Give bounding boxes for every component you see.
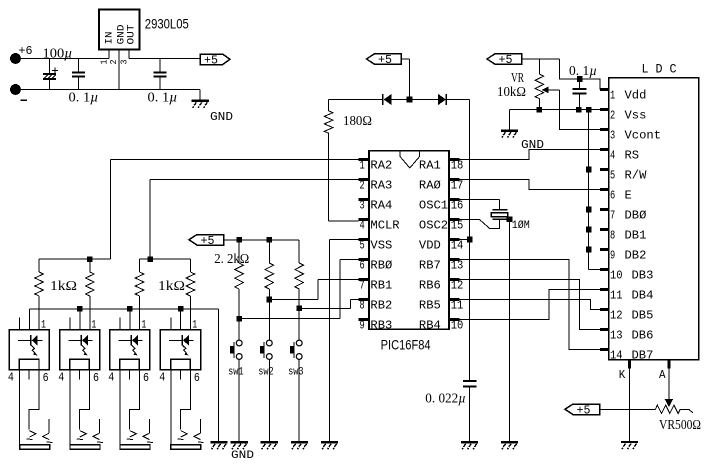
wire U2 pin1 lead [108,49,110,58]
pin 11 RB5 stub [449,298,460,301]
svg-text:MCLR: MCLR [370,219,399,233]
svg-text:RB4: RB4 [419,319,441,333]
svg-text:6: 6 [43,371,49,385]
ground VSS [321,441,338,443]
svg-text:IN: IN [104,32,116,45]
wire PH3 sensor lead [149,419,151,433]
arrow PH3 sensor chevron [143,433,150,439]
wire contrast gnd drop [508,110,510,131]
wire sw1 to ground [238,359,240,442]
wire bus to ground [217,309,219,442]
wire U2 pin3 lead [128,49,130,58]
label U2 pin IN [104,32,116,45]
svg-text:PIC16F84: PIC16F84 [381,337,431,353]
pin 6 RB0 stub [358,258,369,261]
svg-text:15: 15 [451,219,464,233]
pin 7 RB1 stub [358,278,369,281]
wire top rail left [16,58,110,60]
svg-text:VSS: VSS [370,239,392,253]
lcd module body [609,78,699,360]
arrow PH1 emission [31,345,35,353]
node bus DB0 [586,207,592,213]
photo-interrupter PH2 body [60,330,100,370]
ground C5 [461,441,478,443]
wire PH2 pin6 hook [80,370,90,430]
wire +5 to Vdd [559,59,600,90]
pin 1 RA2 stub [358,158,369,161]
svg-text:DB1: DB1 [625,228,647,242]
arrow PH3 hook chevron [130,431,137,437]
notch PH1 bottom window [19,359,39,369]
notch PH4 bottom window [171,359,191,369]
pin 2 RA3 stub [358,178,369,181]
svg-text:14: 14 [610,348,623,362]
svg-text:E: E [625,188,632,202]
svg-text:0. 1µ: 0. 1µ [69,90,99,105]
svg-text:4: 4 [360,219,365,233]
node sw1 RB0 junction [236,316,242,322]
svg-text:4: 4 [108,371,114,385]
svg-text:DB7: DB7 [632,348,654,362]
wire PH3 top stub pin1 [129,309,131,330]
node C4 bottom [576,107,582,113]
svg-text:13: 13 [451,259,464,273]
lcd pin 1 Vdd [600,88,609,91]
lcd pin 14 DB7 [600,348,609,351]
wire PH3 bottom stub mid [128,370,130,380]
capacitor C3 0.1u [159,59,161,73]
pin 12 RB6 stub [449,278,460,281]
diode D1 [382,94,384,105]
pin number U2 1 [99,60,109,65]
wire PH1 bottom stub mid [28,370,30,380]
wire RA0 to E [449,180,600,190]
svg-text:11: 11 [610,288,623,302]
led PH4 internal [169,339,182,341]
slit PH4 bottom bar [171,445,201,450]
pin 4 MCLR stub [358,218,369,221]
arrow PH4 sensor chevron [194,433,201,439]
svg-text:6: 6 [194,371,200,385]
svg-text:4: 4 [159,371,165,385]
wire PH4 bottom stub mid [179,370,181,380]
svg-text:1: 1 [192,320,197,332]
resistor R8 2.2k [298,240,300,263]
node +6 input terminal [10,53,21,64]
wire RA1 to RS [449,150,600,160]
node rail B junction [147,256,153,262]
notch PH3 bottom window [120,359,140,369]
svg-text:K: K [619,368,626,382]
wire OSC1 [449,199,500,201]
pin number U2 2 [109,60,119,65]
wire K to ground [628,369,630,442]
node C4 top junction [577,76,583,82]
svg-text:RB6: RB6 [419,279,441,293]
svg-text:5: 5 [360,239,365,253]
wire +5 to pot top [522,58,560,60]
wire PH4 top stub left [170,317,172,329]
svg-text:RB7: RB7 [419,259,441,273]
svg-text:DB4: DB4 [632,288,654,302]
pin 17 RA0 stub [449,178,460,181]
svg-text:1: 1 [141,320,146,332]
svg-text:+6: +6 [19,44,33,58]
svg-text:1: 1 [610,88,615,102]
resistor R1 180ohm [328,100,330,111]
wire RB6 to DB6 [449,280,600,330]
wire sw2 to ground [268,359,270,442]
svg-text:7: 7 [610,208,615,222]
svg-text:+5: +5 [378,54,392,67]
svg-text:OUT: OUT [126,25,138,45]
wire VDD to capacitor [469,240,471,382]
node rail A junction [87,256,93,262]
svg-text:RAØ: RAØ [419,179,441,193]
pin 14 VDD stub [449,238,460,241]
svg-text:DBØ: DBØ [625,208,647,222]
wire PH1 sensor lead [48,419,50,433]
arrow PH2 sensor chevron [93,433,100,439]
switch sw3 [296,340,302,346]
led PH3 internal [118,339,131,341]
svg-text:9: 9 [360,319,365,333]
lcd pin A stub [667,360,670,369]
svg-text:DB5: DB5 [632,308,654,322]
capacitor C5 0.022u [463,380,477,382]
svg-text:3: 3 [119,60,129,65]
svg-text:1: 1 [91,320,96,332]
svg-text:0. 1µ: 0. 1µ [569,63,597,78]
pin 5 VSS stub [358,238,369,241]
node bus PH2 [77,306,83,312]
wire PH4 pin6 hook [180,370,190,430]
svg-text:VR500Ω: VR500Ω [659,417,701,432]
ground resonator [501,441,518,443]
notch PH2 bottom window [70,359,90,369]
arrow PH2 emission [82,345,86,353]
svg-text:11: 11 [451,299,464,313]
node bus DB1 [586,227,592,233]
potentiometer VR500 body [655,405,680,413]
svg-text:+5: +5 [499,54,513,67]
ic U1 PIC16F84 body [369,151,449,330]
svg-text:2: 2 [109,60,119,65]
wire PH3 pin4 down [119,370,121,446]
wire power ground drop [199,90,201,101]
svg-text:RB5: RB5 [419,299,441,313]
ground sw3 [291,441,308,443]
resistor R4 1k [139,259,141,272]
wire RB0 to sw1 [239,318,340,320]
wire diode row right [446,99,469,101]
lcd pin 13 DB6 [600,328,609,331]
svg-text:17: 17 [451,179,464,193]
wire pullup rail [224,239,300,241]
node bus R/W [586,167,592,173]
wire RB1 to sw2 [269,299,318,301]
pin 18 RA1 stub [449,158,460,161]
ground bus rail [210,441,227,443]
capacitor C2 0.1u [78,59,80,73]
lcd pin 2 Vss [600,108,609,111]
net label +5 contrast [487,54,522,65]
photo-interrupter PH4 body [160,330,200,370]
wire MCLR [329,220,359,222]
pin 9 RB3 stub [358,318,369,321]
svg-text:14: 14 [451,239,464,253]
svg-text:DB2: DB2 [625,248,647,262]
ground power [192,100,209,102]
wire PH1 top stub pin1 [28,309,30,330]
wire resonator to ground [509,219,511,442]
node resonator ground [507,216,513,222]
lcd pin 3 Vcont [600,128,609,131]
pin 13 RB7 stub [449,258,460,261]
svg-text:180Ω: 180Ω [343,113,372,128]
svg-text:GND: GND [210,110,233,124]
svg-text:RA2: RA2 [370,159,392,173]
capacitor C4 0.1u [579,79,581,89]
arrow A wiper [665,399,674,407]
svg-text:12: 12 [451,279,464,293]
lcd pin 10 DB3 [600,268,609,271]
svg-text:16: 16 [451,199,464,213]
wire rail A [39,258,110,260]
svg-text:4: 4 [8,371,14,385]
node bus PH4 [178,306,184,312]
wire wiper to Vcont [560,90,601,130]
net label +5 switches [189,235,224,246]
ground K [621,441,638,443]
svg-text:10: 10 [451,319,464,333]
svg-text:sw2: sw2 [258,367,274,379]
wire +5 to VR500 [600,408,656,410]
wire PH2 pin4 down [69,370,71,446]
svg-text:Vdd: Vdd [625,88,647,102]
resistor R2 1k [38,259,40,272]
svg-text:RB2: RB2 [370,299,392,313]
wire PH4 top stub pin1 [180,309,182,330]
svg-text:Vss: Vss [625,108,647,122]
svg-text:1: 1 [360,159,365,173]
wire sw3 to ground [298,359,300,442]
node VDD junction [467,237,473,243]
node sw2 RB1 junction [267,297,273,303]
wire PH4 pin4 down [170,370,172,446]
led PH2 internal [68,339,81,341]
svg-text:DB6: DB6 [632,328,654,342]
svg-text:1: 1 [41,320,46,332]
svg-text:GND: GND [521,138,544,152]
svg-text:GND: GND [231,450,254,462]
svg-text:0. 1µ: 0. 1µ [148,90,178,105]
svg-text:100µ: 100µ [43,46,73,61]
svg-text:12: 12 [610,308,623,322]
node pot bottom [537,107,543,113]
node pullup sw1 [236,237,242,243]
svg-text:1ØM: 1ØM [512,220,530,232]
svg-text:4: 4 [610,148,615,162]
capacitor C1 100u electrolytic [48,59,50,74]
wire OSC2 [449,219,499,228]
svg-text:8: 8 [360,299,365,313]
svg-text:RA1: RA1 [419,159,441,173]
svg-text:VDD: VDD [419,239,441,253]
photo-interrupter PH3 body [110,330,150,370]
wire PH1 pin4 down [19,370,21,446]
resistor R3 1k [89,259,91,272]
wire PH2 bottom stub mid [78,370,80,380]
diode D2 [438,94,446,105]
wire VDD feed vertical [469,100,471,240]
lcd pin K stub [628,360,631,369]
svg-text:6: 6 [143,371,149,385]
svg-text:2: 2 [360,179,365,193]
resistor R6 2.2k [238,240,240,263]
regulator U2 2930L05 body [99,9,140,49]
resistor R7 2.2k [268,240,270,263]
svg-text:Vcont: Vcont [625,128,662,142]
node sw3 RB2 junction [296,306,302,312]
node bus top [586,107,592,113]
net label +5 above diodes [367,54,402,65]
svg-text:3: 3 [610,128,615,142]
pin 15 OSC2 stub [449,218,460,221]
svg-text:1kΩ: 1kΩ [158,278,185,293]
wire PH2 top stub left [69,317,71,329]
svg-text:2. 2kΩ: 2. 2kΩ [214,251,249,266]
wire VSS to ground [330,239,359,241]
svg-text:2930L05: 2930L05 [145,16,189,32]
ic U1 notch [400,151,420,168]
wire top rail right [129,58,200,60]
svg-text:VR: VR [511,70,524,85]
svg-text:RA3: RA3 [370,179,392,193]
wire +5 tag to diode junction [401,58,410,60]
wire PH2 sensor lead [99,419,101,433]
svg-text:1kΩ: 1kΩ [50,278,77,293]
label U2 pin OUT [126,25,138,45]
label U2 pin GND [115,25,127,45]
resistor R5 1k [189,259,191,272]
svg-text:10: 10 [610,268,623,282]
node - input terminal [10,84,21,95]
wire PH2 top stub pin1 [79,309,81,330]
lcd pin 11 DB4 [600,288,609,291]
lcd pin 5 R/W [600,168,609,171]
svg-text:sw1: sw1 [228,367,244,379]
resonator X1 10M [492,209,507,211]
wire VDD stub [449,239,470,241]
lcd pin 9 DB2 [600,248,609,251]
wire PH4 sensor lead [199,419,201,433]
ground sw2 [261,441,278,443]
wire bottom rail [16,89,201,91]
node bus DB2 [586,247,592,253]
svg-text:6: 6 [360,259,365,273]
wire RB7 to DB7 [449,260,600,350]
pin 3 RA4 stub [358,198,369,201]
arrow PH4 emission [183,345,187,353]
svg-text:L D C: L D C [642,62,677,77]
wire ground bus [588,110,590,270]
switch sw2 [266,340,272,346]
wire RA3 to LED rail B [150,179,358,181]
node pullup sw2 [267,237,273,243]
svg-text:4: 4 [58,371,64,385]
svg-text:18: 18 [451,159,464,173]
ground sw1 [231,441,248,443]
ground contrast [501,129,518,131]
svg-text:3: 3 [360,199,365,213]
pin 10 RB4 stub [449,318,460,321]
svg-text:RB3: RB3 [370,319,392,333]
svg-text:RBØ: RBØ [370,259,392,273]
wire PH3 top stub left [119,317,121,329]
lcd pin 4 RS [600,148,609,151]
svg-text:9: 9 [610,248,615,262]
svg-text:1: 1 [99,60,109,65]
svg-text:R/W: R/W [625,168,648,182]
wire PH1 pin6 hook [29,370,39,430]
arrow PH1 hook chevron [29,431,36,437]
svg-text:RS: RS [625,148,640,162]
svg-text:RA4: RA4 [370,199,392,213]
svg-text:sw3: sw3 [288,367,304,379]
lcd pin 8 DB1 [600,228,609,231]
slit PH2 bottom bar [70,445,100,450]
arrow PH2 hook chevron [80,431,87,437]
svg-text:13: 13 [610,328,623,342]
svg-text:10kΩ: 10kΩ [497,84,526,99]
wire PH1 top stub left [19,317,21,329]
net label +5 power out [200,54,230,65]
svg-text:A: A [659,368,666,382]
lcd pin 7 DB0 [600,208,609,211]
slit PH1 bottom bar [20,445,50,450]
arrow PH3 emission [132,345,136,353]
wire PH3 pin6 hook [130,370,140,430]
svg-text:6: 6 [93,371,99,385]
wire U2 pin2 GND lead [118,49,120,89]
svg-text:OSC1: OSC1 [419,199,448,213]
wire Vss row [509,109,600,111]
wire RB2 to sw3 [299,307,350,309]
svg-text:6: 6 [610,188,615,202]
pin number U2 3 [119,60,129,65]
svg-text:5: 5 [610,168,615,182]
svg-text:RB1: RB1 [370,279,392,293]
wire diode row left [329,99,383,101]
svg-text:7: 7 [360,279,365,293]
net label +5 backlight [565,404,600,415]
arrow PH4 hook chevron [181,431,188,437]
wire rail B [140,258,191,260]
svg-text:OSC2: OSC2 [419,219,448,233]
svg-text:+5: +5 [201,235,215,248]
wire between diodes [392,99,439,101]
pin 8 RB2 stub [358,298,369,301]
wire RB4 to DB4 [449,290,600,320]
svg-text:+5: +5 [204,54,218,67]
svg-text:8: 8 [610,228,615,242]
arrow VR wiper [542,87,549,94]
arrow PH1 sensor chevron [43,433,50,439]
wire RB5 to DB5 [449,300,600,310]
svg-text:+5: +5 [577,404,591,417]
led PH1 internal [18,339,31,341]
